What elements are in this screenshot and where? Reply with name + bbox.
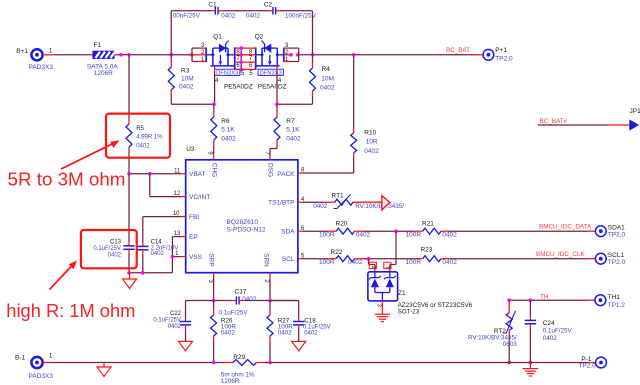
svg-text:DFN3X3: DFN3X3 — [216, 70, 238, 76]
capacitor C2 100nF/25V — [272, 7, 274, 15]
svg-text:U3: U3 — [186, 146, 195, 153]
svg-text:R20: R20 — [336, 220, 348, 227]
resistor R26 100R 0402 — [213, 301, 215, 311]
svg-text:BQ28Z610: BQ28Z610 — [227, 219, 259, 226]
wire SRN column — [269, 278, 271, 301]
svg-text:0402: 0402 — [179, 84, 194, 91]
resistor R22 100R 0402 — [328, 258, 336, 260]
svg-text:EP: EP — [189, 234, 198, 241]
red annotation box around C13 — [81, 230, 137, 268]
svg-text:B-1: B-1 — [15, 355, 26, 362]
svg-text:PE5A0DZ: PE5A0DZ — [258, 83, 287, 90]
resistor R5 4.99R 1% 0402 — [128, 55, 130, 119]
svg-text:TP2.0: TP2.0 — [578, 363, 596, 370]
ground below bottom rail at C24 — [529, 363, 531, 369]
capacitor C18 0.1uF/25V 0402 — [270, 300, 299, 302]
svg-text:R23: R23 — [421, 247, 433, 254]
svg-text:0402: 0402 — [442, 259, 457, 266]
connector B+1 pad PAD3X3 — [31, 49, 42, 60]
wire SDA net — [302, 230, 328, 232]
svg-text:0402: 0402 — [151, 251, 165, 257]
capacitor C1 100nF/25V — [214, 7, 216, 15]
svg-text:TH: TH — [540, 294, 549, 301]
svg-text:F1: F1 — [94, 42, 102, 49]
resistor R21 100R 0402 — [415, 230, 423, 232]
svg-text:SDA: SDA — [281, 229, 295, 236]
svg-text:0603: 0603 — [503, 341, 518, 348]
svg-text:B+1: B+1 — [16, 48, 28, 55]
svg-text:0402: 0402 — [442, 232, 457, 239]
svg-text:1206R: 1206R — [94, 70, 113, 77]
ground under C18 — [292, 341, 306, 351]
op-amp U3 BQ28Z610 S-PDSO-N12 — [186, 160, 298, 273]
svg-text:PAD3X3: PAD3X3 — [29, 373, 54, 380]
U3 pin stubs and numbers — [181, 173, 185, 175]
test point SDA1 TP2.0 — [595, 226, 606, 237]
svg-text:C18: C18 — [304, 317, 316, 324]
svg-text:4.99R 1%: 4.99R 1% — [136, 135, 163, 141]
svg-text:2: 2 — [370, 266, 376, 269]
svg-text:TS1/BTP: TS1/BTP — [268, 200, 294, 207]
svg-text:0402: 0402 — [304, 331, 318, 337]
svg-text:0402: 0402 — [246, 13, 261, 20]
svg-text:1: 1 — [49, 353, 53, 359]
fuse F1 SATA 5.0A 1206R — [89, 54, 93, 56]
svg-text:SOT-23: SOT-23 — [398, 308, 420, 315]
svg-text:0402: 0402 — [221, 136, 236, 143]
svg-text:BC_BAT: BC_BAT — [446, 47, 470, 54]
svg-text:Q1: Q1 — [213, 34, 222, 41]
svg-text:PAD3X3: PAD3X3 — [29, 64, 54, 71]
wire BC_BAT bus — [118, 54, 192, 56]
wire BMCU_IDC_DATA — [449, 230, 587, 232]
svg-text:0.1uF/25V: 0.1uF/25V — [303, 324, 331, 330]
wire CHG net R3 to R6 — [171, 103, 214, 105]
svg-text:C2: C2 — [264, 1, 273, 8]
Q1 Q2 drain pin group (pins 8 7 6 5) — [235, 46, 256, 77]
svg-text:0402: 0402 — [286, 136, 301, 143]
svg-text:3: 3 — [376, 304, 382, 307]
svg-text:DFN3X3: DFN3X3 — [260, 70, 282, 76]
svg-text:0402: 0402 — [242, 296, 257, 303]
test point P+1 TP2.0 — [483, 49, 494, 60]
svg-text:Z1: Z1 — [398, 290, 406, 297]
transistor Q2 PE5A0DZ DFN3X3 — [255, 34, 299, 91]
svg-text:TP1.2: TP1.2 — [608, 302, 626, 309]
svg-text:R21: R21 — [422, 220, 434, 227]
resistor R10 10R 0402 — [353, 158, 355, 174]
junction dots on BC_BAT bus — [119, 53, 123, 57]
svg-text:0402: 0402 — [108, 252, 122, 258]
svg-text:PACK: PACK — [277, 171, 295, 178]
wire SCL branch to Z1 pin 2 — [368, 259, 370, 265]
resistor R3 10M 0402 — [170, 55, 172, 62]
svg-text:C17: C17 — [235, 288, 247, 295]
svg-text:TP2.0: TP2.0 — [495, 56, 513, 63]
wire top rail right riser — [312, 11, 314, 55]
svg-text:P+1: P+1 — [495, 47, 507, 54]
transistor Q1 PE5A0DZ DFN3X3 — [192, 34, 253, 91]
svg-text:0402: 0402 — [320, 85, 335, 92]
wire SRP column — [213, 278, 215, 301]
wire bottom rail to P-1 — [270, 362, 589, 364]
svg-text:C1: C1 — [208, 1, 217, 8]
svg-text:VC/INT: VC/INT — [189, 194, 210, 201]
svg-text:5.1K: 5.1K — [286, 127, 300, 134]
svg-text:S-PDSO-N12: S-PDSO-N12 — [227, 226, 266, 233]
svg-text:BMCU_IDC_DATA: BMCU_IDC_DATA — [539, 224, 592, 231]
svg-text:R29: R29 — [233, 354, 245, 361]
svg-text:0402: 0402 — [221, 330, 236, 337]
wire SDA to R21 — [362, 230, 415, 232]
svg-text:C24: C24 — [543, 320, 555, 327]
svg-text:0402: 0402 — [278, 330, 293, 337]
svg-text:9: 9 — [207, 151, 213, 155]
red annotation arrow to R5 — [61, 140, 120, 169]
svg-text:5: 5 — [241, 71, 245, 77]
svg-text:7: 7 — [264, 151, 270, 155]
svg-text:10M: 10M — [181, 76, 194, 83]
svg-text:C13: C13 — [110, 240, 122, 246]
wire VBAT net — [129, 173, 181, 175]
svg-text:C22: C22 — [170, 311, 182, 317]
svg-text:VBAT: VBAT — [189, 171, 206, 178]
svg-text:1: 1 — [49, 48, 53, 54]
svg-text:7: 7 — [249, 56, 253, 62]
svg-text:VSS: VSS — [189, 254, 203, 261]
svg-text:TH1: TH1 — [608, 294, 621, 301]
capacitor C14 2.2uF/10V — [142, 217, 144, 243]
wire ground net under C13 C14 — [129, 272, 172, 274]
svg-text:0.1uF/25V: 0.1uF/25V — [153, 317, 181, 323]
svg-text:0402: 0402 — [348, 259, 363, 266]
svg-text:100nF/25V: 100nF/25V — [169, 13, 201, 20]
connector B-1 pad PAD3X3 — [31, 357, 42, 368]
svg-text:4: 4 — [215, 78, 219, 84]
svg-text:0402: 0402 — [168, 324, 182, 330]
svg-text:0402: 0402 — [364, 148, 379, 155]
svg-text:0402: 0402 — [356, 232, 371, 239]
svg-text:100R: 100R — [319, 232, 335, 239]
svg-text:3: 3 — [207, 279, 213, 283]
wire FBI net — [143, 216, 182, 218]
svg-text:R6: R6 — [221, 118, 230, 125]
svg-text:R5: R5 — [136, 126, 144, 132]
Z1 pin 3 to ground — [381, 301, 383, 314]
ground tap on bottom rail — [103, 363, 105, 368]
capacitor C22 0.1uF/25V 0402 — [185, 301, 187, 318]
svg-text:10M: 10M — [321, 76, 334, 83]
svg-text:R10: R10 — [364, 129, 376, 136]
wire SCL net — [302, 258, 328, 260]
test point P-1 TP2.0 — [596, 357, 607, 368]
svg-text:100R: 100R — [406, 259, 422, 266]
svg-text:10R: 10R — [366, 138, 378, 145]
svg-text:BMCU_IDC_CLK: BMCU_IDC_CLK — [536, 251, 585, 258]
thermistor RT1 RV:10K/BV:3435 — [302, 201, 326, 203]
svg-text:1206R: 1206R — [221, 378, 240, 385]
wire BMCU_IDC_CLK — [449, 258, 587, 260]
svg-text:100R: 100R — [406, 232, 422, 239]
red annotation box around R5 — [106, 114, 170, 158]
test point SCL1 TP2.0 — [595, 253, 606, 264]
wire top rail left riser — [170, 11, 172, 55]
svg-text:0402: 0402 — [136, 144, 150, 150]
svg-text:SRP: SRP — [208, 253, 215, 266]
wire PACK net — [302, 172, 354, 174]
svg-text:0402: 0402 — [221, 13, 236, 20]
svg-text:SRN: SRN — [263, 253, 270, 267]
capacitor C24 0.1uF/25V 0402 — [529, 300, 531, 316]
svg-text:5R to 3M ohm: 5R to 3M ohm — [8, 169, 126, 190]
svg-text:RV:10K/BV:3435/: RV:10K/BV:3435/ — [355, 203, 404, 210]
wire TH net — [509, 299, 589, 301]
wire VC/INT net — [149, 174, 151, 197]
off-sheet connector JP1 — [629, 119, 639, 130]
svg-text:SCL: SCL — [282, 256, 295, 263]
wire DSG net R4 to R7 — [277, 103, 313, 105]
svg-text:0402: 0402 — [313, 203, 328, 210]
ground under C22 — [179, 341, 193, 351]
resistor R6 5.1K 0402 — [213, 104, 215, 112]
svg-text:6: 6 — [236, 63, 240, 69]
thermistor RT2 RV:10K/BV:3435 0603 — [508, 300, 510, 308]
Z1 pin designator boxes 2 and 1 — [369, 262, 376, 268]
svg-text:R22: R22 — [331, 249, 343, 256]
svg-text:0.1uF/25V: 0.1uF/25V — [93, 246, 121, 252]
resistor R20 100R 0402 — [328, 230, 336, 232]
red annotation arrow to C13 — [50, 261, 78, 290]
svg-text:TP2.0: TP2.0 — [608, 259, 626, 266]
svg-text:5.1K: 5.1K — [221, 127, 235, 134]
svg-text:R4: R4 — [322, 66, 331, 73]
wire Q1 gate to CHG node — [214, 67, 216, 73]
resistor R23 100R 0402 — [415, 258, 423, 260]
zener diode Z1 AZ23C5V6 SOT-23 — [368, 272, 398, 301]
ground under C13 — [129, 273, 131, 279]
svg-text:DSG: DSG — [267, 163, 274, 177]
wire B+1 to F1 — [43, 54, 54, 56]
svg-text:0.1uF/25V: 0.1uF/25V — [543, 328, 573, 335]
svg-text:RT1: RT1 — [332, 192, 345, 199]
ground below Z1 — [375, 313, 391, 315]
junction dots on bottom rail — [212, 361, 216, 365]
wire Q2 gate to DSG node — [276, 67, 278, 73]
wire top rail — [171, 10, 211, 12]
svg-text:0402: 0402 — [543, 335, 558, 342]
resistor R29 5m ohm 1% 1206R — [214, 362, 225, 364]
wire BC_BAT# net — [538, 124, 608, 126]
svg-text:2: 2 — [263, 279, 269, 283]
svg-text:R3: R3 — [181, 68, 190, 75]
svg-text:FBI: FBI — [189, 214, 199, 221]
svg-text:0.1uF/25V: 0.1uF/25V — [219, 309, 249, 316]
svg-text:100nF/25V: 100nF/25V — [285, 13, 317, 20]
wire SCL to R23 — [362, 258, 415, 260]
svg-text:5: 5 — [249, 71, 253, 77]
off-sheet arrow TS1 — [382, 196, 390, 210]
capacitor C13 0.1uF/25V — [128, 174, 130, 242]
svg-text:BC_BAT#: BC_BAT# — [540, 118, 568, 125]
svg-text:TP2.0: TP2.0 — [608, 231, 626, 238]
wire EP VSS net — [172, 236, 181, 238]
svg-text:Q2: Q2 — [255, 34, 264, 41]
svg-text:100R: 100R — [319, 259, 335, 266]
svg-text:JP1: JP1 — [630, 108, 640, 115]
resistor R7 5.1K 0402 — [276, 104, 278, 112]
svg-text:1: 1 — [385, 266, 391, 269]
wire B-1 to R29 — [43, 362, 50, 364]
svg-text:R7: R7 — [286, 118, 295, 125]
wire SDA branch to Z1 pin 1 — [395, 231, 397, 264]
svg-text:high R: 1M ohm: high R: 1M ohm — [6, 300, 135, 321]
capacitor C17 0.1uF/25V 0402 — [186, 300, 232, 302]
svg-text:PE5A0DZ: PE5A0DZ — [224, 83, 253, 90]
test point TH1 TP1.2 — [595, 295, 606, 306]
svg-text:6: 6 — [249, 63, 253, 69]
resistor R4 10M 0402 — [312, 55, 314, 62]
svg-text:CHG: CHG — [210, 163, 217, 177]
resistor R27 100R 0402 — [269, 301, 271, 311]
